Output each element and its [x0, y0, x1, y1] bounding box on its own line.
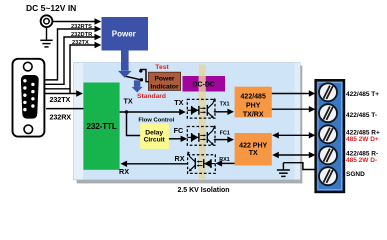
svg-text:TX/RX: TX/RX [243, 111, 264, 118]
RX1 input wire [216, 160, 235, 166]
svg-text:Power: Power [112, 30, 136, 39]
svg-text:FC: FC [174, 126, 184, 135]
DB9 connector [13, 59, 45, 137]
svg-text:DC 5~12V IN: DC 5~12V IN [26, 3, 76, 13]
TX line green to opto [120, 109, 186, 136]
ground (signal ground SGND) [277, 163, 290, 177]
signal labels left [71, 24, 92, 46]
terminal labels [346, 91, 380, 178]
screw 1 [319, 83, 337, 101]
wire jack to power [53, 21, 96, 23]
screw 5 [319, 167, 337, 185]
wire 232TX into box [45, 89, 83, 97]
svg-text:TX: TX [124, 96, 133, 105]
svg-text:485 2W D+: 485 2W D+ [346, 136, 379, 143]
screw 4 [319, 146, 337, 164]
svg-text:TX1: TX1 [220, 101, 230, 107]
svg-text:Indicator: Indicator [150, 84, 179, 91]
svg-text:Circuit: Circuit [144, 137, 166, 144]
wire 422/485 R+ / 485 2W D+ (bidirectional) [272, 132, 315, 138]
svg-text:422/485 T+: 422/485 T+ [346, 91, 379, 98]
svg-text:422 PHY: 422 PHY [239, 143, 267, 150]
422/485 PHY TX/RX block [235, 87, 272, 119]
TX1 output wire [214, 109, 234, 115]
svg-text:232RX: 232RX [50, 112, 72, 121]
main isolation box [74, 63, 303, 184]
wire 232RX [46, 108, 83, 110]
wire 422/485 R- / 485 2W D- (bidirectional) [272, 152, 315, 158]
svg-text:TX: TX [174, 98, 183, 107]
DC-DC block [183, 76, 226, 92]
opto RX1 (mirrored) [187, 151, 215, 173]
isolation stripe [199, 65, 206, 179]
svg-text:PHY: PHY [246, 102, 261, 109]
power indicator block [149, 72, 181, 90]
svg-text:2.5 KV Isolation: 2.5 KV Isolation [177, 187, 229, 194]
opto TX1 [187, 98, 215, 118]
svg-text:Flow Control: Flow Control [138, 118, 174, 124]
screw 3 [319, 125, 337, 143]
wire 232RTS [45, 26, 102, 80]
svg-text:485 2W D-: 485 2W D- [346, 157, 377, 164]
DC jack symbol [40, 15, 101, 47]
blue arrow standard [132, 80, 143, 92]
svg-text:232RTS: 232RTS [71, 24, 92, 30]
svg-text:422/485 T-: 422/485 T- [346, 112, 377, 119]
svg-text:422/485: 422/485 [241, 93, 266, 100]
wire 422/485 T- to terminal [272, 106, 316, 112]
ground at jack [46, 28, 48, 41]
power block [102, 17, 149, 51]
232-TTL block [83, 83, 119, 170]
FC line delay to opto [169, 136, 187, 142]
svg-text:Power: Power [154, 76, 174, 83]
svg-text:232-TTL: 232-TTL [86, 122, 116, 131]
svg-text:Test: Test [155, 64, 169, 71]
delay circuit block [140, 123, 169, 149]
svg-text:232DTR: 232DTR [71, 32, 92, 38]
svg-text:FC1: FC1 [220, 130, 230, 136]
FC1 output wire [214, 136, 234, 142]
power switch [126, 69, 149, 81]
422 PHY TX block [235, 133, 272, 166]
svg-text:232TX: 232TX [72, 40, 89, 46]
svg-text:RX1: RX1 [219, 157, 230, 163]
svg-text:232TX: 232TX [50, 95, 71, 104]
wire 232TX to power [45, 42, 102, 89]
RX line opto to green [121, 161, 188, 167]
wire 422/485 T+ to terminal [272, 90, 316, 96]
blue power arrow down from Power [118, 51, 132, 78]
wire SGND to terminal [283, 163, 315, 170]
screw 2 [319, 104, 337, 122]
svg-text:DC-DC: DC-DC [192, 82, 215, 89]
svg-text:Delay: Delay [145, 130, 163, 137]
terminal block [316, 80, 344, 192]
opto FC1 [187, 125, 215, 145]
svg-text:RX: RX [119, 167, 129, 176]
wire 232DTR [45, 34, 102, 85]
svg-text:TX: TX [249, 150, 258, 157]
svg-text:RX: RX [175, 154, 185, 163]
svg-text:SGND: SGND [346, 171, 365, 178]
svg-text:Standard: Standard [137, 93, 166, 100]
